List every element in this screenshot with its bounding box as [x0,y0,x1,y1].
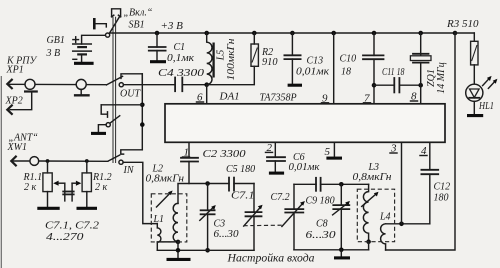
svg-text:С9 180: С9 180 [306,195,335,206]
wire pin9 [333,33,335,104]
svg-text:С5 180: С5 180 [226,164,255,175]
node OUT link upper [140,103,145,108]
second tank top rail [294,183,316,185]
node C1 [155,31,160,36]
svg-text:С8: С8 [316,219,328,230]
gang link dashed [244,224,283,227]
pin 5 label [325,146,331,158]
node pin6 junction [204,82,209,87]
svg-text:100мкГн: 100мкГн [226,38,237,80]
capacitor C4 [175,78,207,92]
svg-text:0,8мкГн: 0,8мкГн [146,173,185,184]
wire right rail [386,33,455,250]
pin 1 label [183,147,190,159]
crystal ZQ1 [410,33,431,104]
svg-text:180: 180 [434,193,449,204]
svg-text:С11 18: С11 18 [382,67,405,78]
LED HL1 [466,65,483,114]
ground under C1 [150,60,166,63]
node pin9 [331,31,336,36]
antenna plug XW1 [11,156,38,166]
pin 2 label [266,142,273,154]
capacitor C5 [229,178,254,191]
antenna wire to IN switch [39,160,108,162]
page edge artifact [0,76,2,268]
node C10 [372,31,377,36]
svg-text:Настройка входа: Настройка входа [227,251,315,265]
wire pin3 [401,142,403,224]
svg-text:С7.2: С7.2 [271,192,290,203]
svg-text:4...270: 4...270 [46,232,84,243]
svg-text:С7.1: С7.1 [231,191,255,202]
inductor L1 [157,224,161,251]
node ZQ1 [418,31,423,36]
capacitor C9 [316,178,369,191]
wire L3 to rail [368,242,370,250]
ground under C13 [288,84,302,87]
switch middle section lever [98,115,120,132]
capacitor C10 [363,33,384,104]
switch IN section fixed contact [121,150,143,154]
node R2 [252,31,257,36]
capacitor C13 [284,33,300,84]
variable capacitor C7.1 [244,184,263,251]
svg-text:С12: С12 [434,182,451,193]
svg-text:L4: L4 [379,211,391,222]
wire pin5 to ground [326,142,342,158]
resistor R2 [251,33,258,66]
node right rail [453,31,458,36]
capacitor C12 [421,142,438,224]
node C3 top [205,181,210,186]
ground middle switch [91,132,106,135]
node C3 bottom [205,248,210,253]
svg-text:ХР1: ХР1 [6,65,24,76]
ground tank A [167,258,191,261]
svg-text:0,1мк: 0,1мк [167,53,194,64]
wire XP2 branch [10,92,32,110]
coax socket circle XP1 [24,79,38,91]
svg-text:С1: С1 [174,42,186,53]
inductor L5 [207,33,214,85]
pin 6 label [197,92,204,104]
svg-text:IN: IN [123,165,135,176]
switch IN section lever [108,155,123,165]
svg-text:2 к: 2 к [24,182,37,193]
ground under R1.1 [37,207,59,210]
variable capacitor C3 [200,184,216,251]
second tank bottom rail [294,249,369,251]
ground under GB1 [74,62,94,65]
node L5 [204,31,209,36]
pin 9 label [322,93,329,105]
svg-text:0,01мк: 0,01мк [289,162,320,173]
svg-text:+3 В: +3 В [161,20,184,32]
wire XP1 to OUT switch [9,83,106,85]
wire OUT to C4 [123,84,175,86]
svg-text:ТА7358Р: ТА7358Р [260,93,297,104]
svg-text:6...30: 6...30 [306,230,336,241]
capacitor between wipers [63,183,73,201]
node L3 bottom [366,239,371,244]
push button SB1 [112,9,121,17]
L2 tuning arrow [157,191,173,208]
shield box L3 L4 [357,189,394,242]
svg-text:HL1: HL1 [478,101,494,112]
svg-text:0,01мк: 0,01мк [296,66,329,77]
shield box L1 L2 [151,194,187,242]
wire to R2 bottom [207,66,255,84]
pin 3 label [390,143,397,155]
node OUT link lower [140,122,145,127]
svg-text:L1: L1 [153,214,165,225]
resistor R3 [455,33,478,65]
ground under HL1 [467,114,483,117]
L3 tuning arrow [362,192,379,207]
input tank bottom rail [157,249,254,251]
wire GB1 to SB1 [82,35,106,44]
inductor L2 [173,203,178,241]
pin 8 label [411,91,418,103]
svg-text:18: 18 [341,67,351,78]
variable capacitor C8 [333,184,350,250]
wire IN to input tank [123,162,157,223]
node C11 junction [372,83,377,88]
svg-text:SB1: SB1 [129,20,145,31]
pin 4 label [420,145,427,157]
svg-text:ХР2: ХР2 [5,96,23,107]
switch SB1 contact and lever [106,16,120,37]
svg-text:2 к: 2 к [95,182,108,193]
pin 7 label [364,93,371,105]
switch common vertical link [141,74,143,150]
node L2 bottom [176,240,181,245]
capacitor C6 [267,142,285,171]
svg-text:0,8мкГн: 0,8мкГн [353,172,392,183]
ground under R1.2 [77,207,98,210]
inductor L4 [381,224,386,250]
switch OUT section [106,74,143,87]
svg-text:14 МГц: 14 МГц [436,62,447,94]
+3V rail wire [110,32,455,34]
wire to tank ground [177,242,179,258]
svg-text:С7.1, С7.2: С7.1, С7.2 [45,221,99,232]
svg-text:5: 5 [325,146,331,158]
potentiometer R1.2 [72,161,91,207]
wire L4 top to pin3 C12 [386,223,430,225]
svg-text:R3 510: R3 510 [446,19,479,30]
op-amp IC DA1 TA7358P body [165,104,445,143]
mechanical link of SB1 sections [113,17,116,163]
capacitor C2 [181,142,198,183]
node C8 bottom [339,248,344,253]
switch middle section fixed contact [101,105,142,117]
wire L1 L2 bottoms [157,241,178,243]
svg-text:С13: С13 [307,56,324,67]
LED light arrows [483,76,498,89]
svg-text:С10: С10 [340,54,357,65]
svg-text:XW1: XW1 [7,142,27,153]
svg-text:С4 3300: С4 3300 [158,67,205,79]
svg-text:„Вкл.“: „Вкл.“ [124,8,153,19]
battery GB1 [73,37,92,62]
node tank A rail [176,248,181,253]
variable capacitor C7.2 [282,184,305,250]
node R1.1 tap [46,159,50,163]
node C13 [290,31,295,36]
input tank top rail [178,184,229,204]
capacitor C1 [149,33,166,60]
coax socket circle 2 [74,79,90,95]
connector XP1 plug arrow [7,79,12,89]
inductor L3 [363,184,368,241]
svg-text:3 В: 3 В [46,48,61,59]
svg-text:OUT: OUT [120,89,141,100]
ground tank B [334,250,350,258]
capacitor C11 [374,78,423,92]
node R1.2 tap [85,159,89,163]
ground under C6 [269,172,284,175]
node C8 top [339,182,344,187]
node pin3 [399,222,404,227]
svg-text:910: 910 [262,57,278,68]
svg-text:DA1: DA1 [219,91,240,103]
svg-text:6...30: 6...30 [214,229,239,240]
switch SB1 fixed bar [94,18,106,29]
svg-text:GB1: GB1 [47,35,65,46]
svg-text:С2 3300: С2 3300 [203,148,247,160]
connector XP2 plug arrow [7,105,12,115]
potentiometer R1.1 [43,161,65,207]
wire pin6 [206,85,208,104]
